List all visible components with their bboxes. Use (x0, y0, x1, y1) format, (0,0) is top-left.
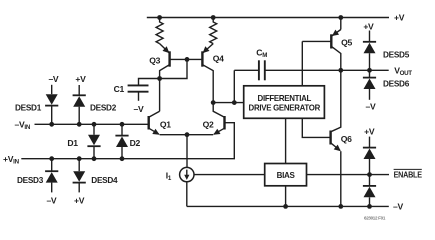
svg-text:DESD6: DESD6 (383, 79, 409, 89)
svg-text:DESD2: DESD2 (90, 102, 116, 112)
junction Q6 emitter / -V rail (338, 204, 343, 209)
junction +VIN/DESD4 (77, 156, 82, 161)
svg-text:DRIVE GENERATOR: DRIVE GENERATOR (249, 103, 321, 112)
junction top rail / R-left (157, 15, 162, 20)
wire –VIN input line (35, 123, 149, 125)
svg-text:+V: +V (74, 196, 85, 206)
junction C1 / Q3 collector / Q1 collector node (157, 76, 162, 81)
svg-text:Q1: Q1 (160, 119, 171, 129)
svg-text:CM: CM (256, 47, 267, 59)
svg-text:D2: D2 (130, 138, 141, 148)
junction Q4/Q2 collector node (211, 100, 216, 105)
diode D1 (87, 124, 100, 158)
junction -VIN/DESD1 (49, 122, 54, 127)
svg-text:DESD3: DESD3 (17, 175, 43, 185)
junction VOUT / Q5 collector / Q6 collector (338, 68, 343, 73)
wire +VIN input line / Q2 base (21, 123, 234, 159)
capacitor CM (234, 60, 388, 80)
transistor Q1 (NPN) (149, 111, 160, 134)
block U2: bias (265, 164, 307, 186)
svg-text:–V: –V (48, 74, 58, 84)
svg-text:+VIN: +VIN (3, 154, 20, 166)
diode DESD4 (73, 159, 86, 193)
wire Q3 base-collector tie (160, 59, 187, 78)
svg-text:–V: –V (393, 202, 403, 212)
wire I1 to bias block (194, 174, 265, 176)
resistor R-right (Q4 load) (210, 18, 217, 44)
transistor Q4 (PNP) (202, 44, 213, 103)
transistor Q6 (NPN) (331, 70, 341, 206)
diode DESD6 (363, 70, 376, 100)
wire bottom -V rail (187, 205, 389, 207)
current source I1 (180, 135, 194, 207)
svg-text:–V: –V (366, 102, 376, 112)
svg-text:Q3: Q3 (149, 55, 160, 65)
svg-text:–VIN: –VIN (15, 119, 31, 131)
transistor Q3 (PNP) (160, 44, 170, 79)
diode DESD2 (73, 85, 86, 124)
junction top rail / R-right (211, 15, 216, 20)
capacitor C1 (128, 79, 160, 101)
svg-text:–V: –V (46, 196, 56, 206)
svg-text:Q4: Q4 (213, 53, 224, 63)
junction -VIN/D2 (120, 122, 125, 127)
block U1: differential drive generator (244, 86, 325, 119)
svg-text:623012 F01: 623012 F01 (364, 215, 386, 220)
svg-text:C1: C1 (114, 84, 125, 94)
wire bias to ENABLE pin (307, 174, 390, 176)
svg-text:+V: +V (394, 13, 405, 23)
svg-text:+V: +V (75, 74, 86, 84)
svg-text:I1: I1 (166, 170, 172, 182)
junction ENABLE ESD / -V rail (367, 204, 372, 209)
junction VOUT / ESD diodes (367, 68, 372, 73)
transistor Q2 (NPN) (213, 103, 224, 135)
junction -VIN/DESD2 (77, 122, 82, 127)
wire Q1 collector riser (159, 79, 161, 112)
junction bias / -V rail (283, 204, 288, 209)
wire Q1/Q2 emitters (160, 134, 214, 136)
wire drive generator to bias (285, 118, 287, 163)
junction -VIN/D1 (92, 122, 97, 127)
transistor Q5 (PNP) (302, 18, 341, 71)
diode D2 (115, 124, 128, 158)
svg-text:DESD1: DESD1 (15, 102, 41, 112)
svg-text:Q5: Q5 (341, 37, 352, 47)
junction Q1/Q2 emitter tie (185, 132, 190, 137)
svg-text:DESD4: DESD4 (91, 175, 117, 185)
junction CM tap node (232, 100, 237, 105)
wire top +V rail (147, 17, 389, 19)
junction +VIN/D2 (120, 156, 125, 161)
svg-text:D1: D1 (67, 138, 78, 148)
wire drive generator to Q6 base (302, 118, 330, 137)
junction +VIN/DESD3 (49, 156, 54, 161)
resistor R-left (Q3 load) (156, 18, 163, 44)
diode (ENABLE clamp to +V) (363, 137, 376, 175)
svg-text:DIFFERENTIAL: DIFFERENTIAL (258, 94, 312, 103)
junction +VIN/D1 (92, 156, 97, 161)
svg-text:Q2: Q2 (203, 119, 214, 129)
junction Q3/Q4 base tie (185, 57, 190, 62)
wire Q3/Q4 common base (170, 58, 203, 60)
svg-text:ENABLE: ENABLE (394, 170, 423, 180)
diode (ENABLE clamp to -V) (363, 175, 376, 207)
svg-text:VOUT: VOUT (394, 65, 412, 77)
label ENABLE (active low) (394, 169, 423, 179)
svg-text:DESD5: DESD5 (383, 50, 409, 60)
wire Q5 base to drive generator (301, 41, 303, 85)
junction top rail / Q5 emitter (338, 15, 343, 20)
junction ENABLE / ESD diodes (367, 172, 372, 177)
diode DESD3 (45, 159, 58, 193)
wire Q4/Q2 collector node to drive generator (213, 102, 244, 104)
diode DESD5 (363, 31, 376, 71)
svg-text:+V: +V (364, 127, 375, 137)
wire bias to -V rail (285, 186, 287, 207)
wire CM tap riser (233, 70, 235, 102)
diode DESD1 (45, 85, 58, 125)
svg-text:Q6: Q6 (341, 134, 352, 144)
svg-text:BIAS: BIAS (277, 171, 296, 180)
svg-text:+V: +V (363, 22, 374, 32)
svg-text:–V: –V (134, 104, 144, 114)
